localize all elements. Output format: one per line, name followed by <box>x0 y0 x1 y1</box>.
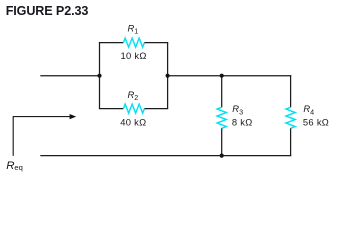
wire: parallel box left side <box>99 43 101 109</box>
wire: R4 branch top stub <box>290 75 292 107</box>
svg-text:8 kΩ: 8 kΩ <box>232 117 253 128</box>
svg-text:R1: R1 <box>128 23 139 36</box>
Req arrow <box>13 114 76 156</box>
svg-text:R4: R4 <box>303 103 314 116</box>
wire: box top edge right stub <box>144 42 168 44</box>
wire: bottom return <box>40 155 291 157</box>
node A: left junction dot <box>97 74 101 78</box>
wire: parallel box right side <box>167 43 169 109</box>
wire: left terminal to node A <box>40 75 99 77</box>
svg-text:R2: R2 <box>128 89 139 102</box>
wire: box bottom edge right stub <box>144 108 168 110</box>
svg-text:40 kΩ: 40 kΩ <box>120 116 146 127</box>
wire: box top edge left stub <box>99 42 124 44</box>
svg-text:FIGURE P2.33: FIGURE P2.33 <box>6 4 89 18</box>
svg-text:10 kΩ: 10 kΩ <box>121 50 147 61</box>
resistor R4 zigzag <box>286 107 295 128</box>
wire: node B to top right corner <box>168 75 292 77</box>
node D: R3 bottom junction dot <box>220 154 224 158</box>
node C: R3 top junction dot <box>220 74 224 78</box>
svg-text:56 kΩ: 56 kΩ <box>303 117 329 128</box>
wire: box bottom edge left stub <box>99 108 124 110</box>
node B: right junction dot on box <box>166 74 170 78</box>
resistor R3 zigzag <box>217 107 226 128</box>
resistor R2 zigzag <box>123 104 144 113</box>
svg-text:Req: Req <box>6 160 23 172</box>
wire: R3 bottom stub <box>221 128 223 155</box>
resistor R1 zigzag <box>123 38 144 47</box>
wire: R4 bottom stub <box>290 128 292 156</box>
wire: R3 top stub <box>221 76 223 108</box>
svg-text:R3: R3 <box>232 103 243 116</box>
